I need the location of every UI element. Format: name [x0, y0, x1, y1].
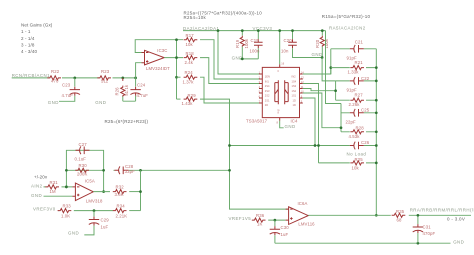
resistor R22 [47, 69, 61, 84]
svg-text:10k: 10k [186, 42, 194, 47]
svg-text:R21: R21 [355, 60, 364, 65]
wire R29 to long vertical [200, 99, 289, 209]
svg-text:100n: 100n [250, 48, 260, 53]
capacitor C20 [281, 29, 322, 57]
svg-text:1D: 1D [293, 103, 296, 107]
formula text R25 [184, 11, 263, 21]
svg-text:+/-20v: +/-20v [34, 175, 48, 180]
svg-text:100k: 100k [324, 38, 329, 48]
svg-text:R22: R22 [51, 69, 60, 74]
node junction R26 [121, 77, 124, 80]
wire R18 to chip [200, 58, 259, 84]
svg-text:VREF1V5: VREF1V5 [229, 216, 252, 221]
wire pair1 left vertical [330, 49, 332, 74]
svg-text:1 - 1: 1 - 1 [21, 29, 31, 34]
svg-text:470pF: 470pF [423, 231, 436, 236]
svg-text:C21: C21 [355, 39, 364, 44]
svg-text:2.21K: 2.21K [116, 214, 128, 219]
svg-text:2S2: 2S2 [265, 94, 270, 98]
resistor R33 [58, 203, 113, 218]
svg-text:3.6K: 3.6K [115, 192, 124, 197]
svg-text:2 - 1/4: 2 - 1/4 [21, 36, 35, 41]
svg-text:C30: C30 [281, 225, 290, 230]
capacitor C22 [336, 76, 377, 92]
svg-text:C22: C22 [361, 76, 370, 81]
svg-text:GND: GND [453, 240, 464, 245]
svg-text:R32: R32 [116, 185, 125, 190]
svg-text:GND: GND [48, 100, 59, 105]
svg-text:R254=10k: R254=10k [184, 15, 207, 20]
svg-text:LMV324IDT: LMV324IDT [146, 66, 170, 71]
svg-text:R33: R33 [63, 203, 72, 208]
svg-text:200K: 200K [77, 172, 87, 177]
svg-text:IC6A: IC6A [298, 201, 308, 206]
svg-text:1uF: 1uF [281, 232, 289, 237]
wire C26 row [230, 145, 377, 147]
svg-text:GND: GND [285, 124, 296, 129]
wire pin row98 to C26 row [303, 98, 315, 146]
svg-text:1S1: 1S1 [292, 94, 297, 98]
svg-text:RRA/RRB/RRM/RRL/RRH(/R): RRA/RRB/RRM/RRL/RRH(/R) [410, 207, 474, 212]
resistor R30 [75, 163, 89, 176]
svg-text:4 - 3/40: 4 - 3/40 [21, 49, 37, 54]
junction dots ladder bus [175, 38, 178, 41]
wire R20 gnd down to pair2 [322, 58, 336, 81]
wire VCC rail [183, 30, 326, 32]
svg-text:RA5/ACA2/CN2: RA5/ACA2/CN2 [329, 26, 366, 31]
resistor R28 [341, 125, 376, 138]
capacitor C26 [347, 140, 370, 156]
svg-text:R25=(6*(R22+R23)): R25=(6*(R22+R23)) [105, 119, 149, 124]
resistor R32 [113, 185, 141, 197]
svg-text:VCC3V3: VCC3V3 [253, 26, 273, 31]
svg-text:470: 470 [51, 79, 59, 84]
svg-text:R24: R24 [185, 70, 194, 75]
svg-text:3 - 1/8: 3 - 1/8 [21, 42, 35, 47]
svg-text:No Load: No Load [347, 151, 367, 156]
resistor R19 vertical [235, 29, 249, 59]
svg-text:DA2/ACA2/DA1: DA2/ACA2/DA1 [183, 26, 219, 31]
wire rail to chip pin row [218, 31, 259, 74]
wire feedback to -input [135, 40, 183, 53]
capacitor C24 [123, 78, 148, 101]
wire right bus [375, 49, 377, 216]
wire rail down right [326, 31, 342, 104]
svg-text:RCN/RCB/ACN1: RCN/RCB/ACN1 [12, 73, 50, 78]
wire output row [308, 214, 471, 216]
resistor R34 [113, 203, 141, 218]
svg-text:GND: GND [68, 231, 79, 236]
wire node vertical down [140, 170, 142, 210]
svg-text:IN2: IN2 [292, 74, 297, 78]
resistor R17 [184, 33, 198, 47]
svg-text:C23: C23 [62, 82, 71, 87]
svg-text:GND: GND [31, 193, 42, 198]
svg-text:C24: C24 [137, 82, 146, 87]
svg-text:R17: R17 [186, 33, 195, 38]
resistor R29 [177, 93, 198, 106]
svg-text:VREF3V0: VREF3V0 [33, 206, 56, 211]
wire plus input [44, 195, 73, 197]
node bus left ladder [176, 40, 178, 99]
svg-text:10n: 10n [281, 48, 289, 53]
wire input row [12, 77, 136, 79]
svg-text:2S1: 2S1 [265, 99, 270, 103]
resistor R18 [184, 51, 198, 65]
svg-text:IN1: IN1 [265, 79, 270, 83]
node rail junction [217, 29, 220, 32]
svg-text:1EN: 1EN [265, 74, 270, 78]
svg-text:1M: 1M [50, 189, 56, 194]
wire C28 to long node [141, 169, 230, 171]
svg-text:C26: C26 [361, 140, 370, 145]
capacitor C25 [341, 107, 376, 124]
svg-text:1S3: 1S3 [292, 84, 297, 88]
op-amp IC6A [286, 201, 316, 226]
svg-text:R34: R34 [117, 203, 126, 208]
svg-text:LMV318: LMV318 [86, 199, 103, 204]
capacitor C19 [250, 29, 263, 59]
svg-text:R27: R27 [355, 93, 364, 98]
svg-text:C31: C31 [423, 224, 432, 229]
wire pin row93 to pair3 feed [303, 93, 341, 128]
wire chip vcc pin [279, 31, 281, 65]
svg-text:1uF: 1uF [101, 225, 109, 230]
svg-text:R25: R25 [355, 157, 364, 162]
svg-text:GND: GND [232, 55, 243, 60]
resistor R31 [44, 180, 73, 194]
svg-text:100k: 100k [244, 38, 249, 48]
svg-text:1.43k: 1.43k [182, 101, 194, 106]
svg-text:R26: R26 [115, 87, 120, 96]
svg-text:68: 68 [397, 218, 402, 223]
svg-text:4.53k: 4.53k [349, 134, 361, 139]
wire output [93, 191, 110, 193]
resistor R25 [319, 157, 377, 170]
svg-text:33pF: 33pF [125, 169, 135, 174]
svg-text:IC4: IC4 [291, 119, 298, 124]
wire pin row74 to pair1 [303, 68, 331, 74]
svg-text:C25: C25 [361, 107, 370, 112]
resistor R23 [97, 69, 111, 84]
svg-text:R18: R18 [186, 51, 195, 56]
svg-text:0 - 3.0V: 0 - 3.0V [447, 217, 465, 222]
svg-text:R35: R35 [396, 209, 405, 214]
svg-text:Net Gains (Gx): Net Gains (Gx) [21, 23, 53, 28]
svg-text:2D: 2D [265, 103, 268, 107]
capacitor C31 [413, 214, 436, 243]
resistor R26 vertical [115, 78, 129, 101]
capacitor C21 [331, 39, 377, 60]
resistor R35 [392, 209, 406, 223]
svg-text:4.7uF: 4.7uF [137, 93, 149, 98]
svg-text:R36: R36 [256, 213, 265, 218]
svg-text:R28: R28 [356, 125, 365, 130]
resistor R27 [336, 93, 377, 108]
svg-text:LMV116: LMV116 [298, 222, 315, 227]
svg-text:10k: 10k [352, 165, 360, 170]
capacitor C30 [270, 220, 289, 243]
wire gnd row bottom [275, 242, 451, 244]
resistor R36 [252, 213, 286, 226]
capacitor C27 [75, 142, 90, 161]
svg-text:GND: GND [312, 52, 323, 57]
svg-text:1.33k: 1.33k [348, 69, 360, 74]
wire pin row88 to pair2 feed [303, 89, 336, 91]
resistor R24 [177, 70, 198, 85]
resistor R21 [331, 60, 377, 74]
wire pair3 left vertical [340, 104, 342, 132]
svg-text:1.37k: 1.37k [183, 79, 195, 84]
svg-text:2S4: 2S4 [265, 84, 270, 88]
svg-text:GND: GND [95, 100, 106, 105]
wire R24 to chip [200, 77, 259, 103]
svg-text:R19: R19 [235, 39, 240, 48]
svg-text:AIN2: AIN2 [31, 183, 43, 188]
svg-text:1S2: 1S2 [292, 89, 297, 93]
note text block "Net Gains" [21, 23, 53, 54]
svg-text:IC3C: IC3C [157, 48, 167, 53]
op-amp IC5A [72, 179, 103, 204]
node junction C23 [73, 77, 76, 80]
wire pair2 left vertical [335, 81, 337, 100]
wire feedback loop [66, 150, 103, 191]
svg-text:C27: C27 [79, 142, 88, 147]
svg-text:1K: 1K [257, 221, 262, 226]
svg-text:C19: C19 [251, 38, 260, 43]
wire chip gnd stub [280, 121, 284, 128]
node gnd junction [241, 58, 244, 61]
svg-text:0.1uF: 0.1uF [75, 156, 87, 161]
svg-text:2S3: 2S3 [265, 89, 270, 93]
svg-text:TS3A5017: TS3A5017 [246, 119, 268, 124]
svg-text:2.26k: 2.26k [349, 102, 361, 107]
capacitor C23 [59, 78, 80, 101]
svg-text:1S4: 1S4 [292, 79, 297, 83]
svg-text:511: 511 [101, 79, 109, 84]
svg-text:R23: R23 [101, 69, 110, 74]
wire to +input [136, 63, 142, 78]
svg-text:1D: 1D [293, 99, 296, 103]
wire gnd row left [240, 58, 259, 60]
svg-text:1.0K: 1.0K [61, 213, 70, 218]
svg-text:C20: C20 [284, 38, 293, 43]
wire output [164, 57, 183, 59]
svg-text:R20: R20 [315, 39, 320, 48]
capacitor C29 [84, 211, 109, 235]
resistor R20 vertical [315, 29, 329, 57]
svg-text:R31: R31 [50, 180, 59, 185]
svg-text:51.1k: 51.1k [124, 84, 129, 96]
wire R17 to chip [200, 40, 259, 79]
svg-text:C29: C29 [101, 217, 110, 222]
op-amp IC3C [142, 48, 171, 71]
svg-text:IC5A: IC5A [85, 179, 95, 184]
svg-text:2.4k: 2.4k [185, 60, 194, 65]
node junction C24 [134, 77, 137, 80]
svg-text:R30: R30 [79, 163, 88, 168]
svg-text:22pF: 22pF [346, 119, 356, 124]
svg-text:R29: R29 [188, 93, 197, 98]
svg-text:4.7uF: 4.7uF [62, 93, 74, 98]
wire pin row83.5 to R25 row [303, 84, 319, 163]
capacitor C28 [114, 164, 141, 174]
svg-text:R15a=(5*Ga*R32)-10: R15a=(5*Ga*R32)-10 [322, 14, 371, 19]
